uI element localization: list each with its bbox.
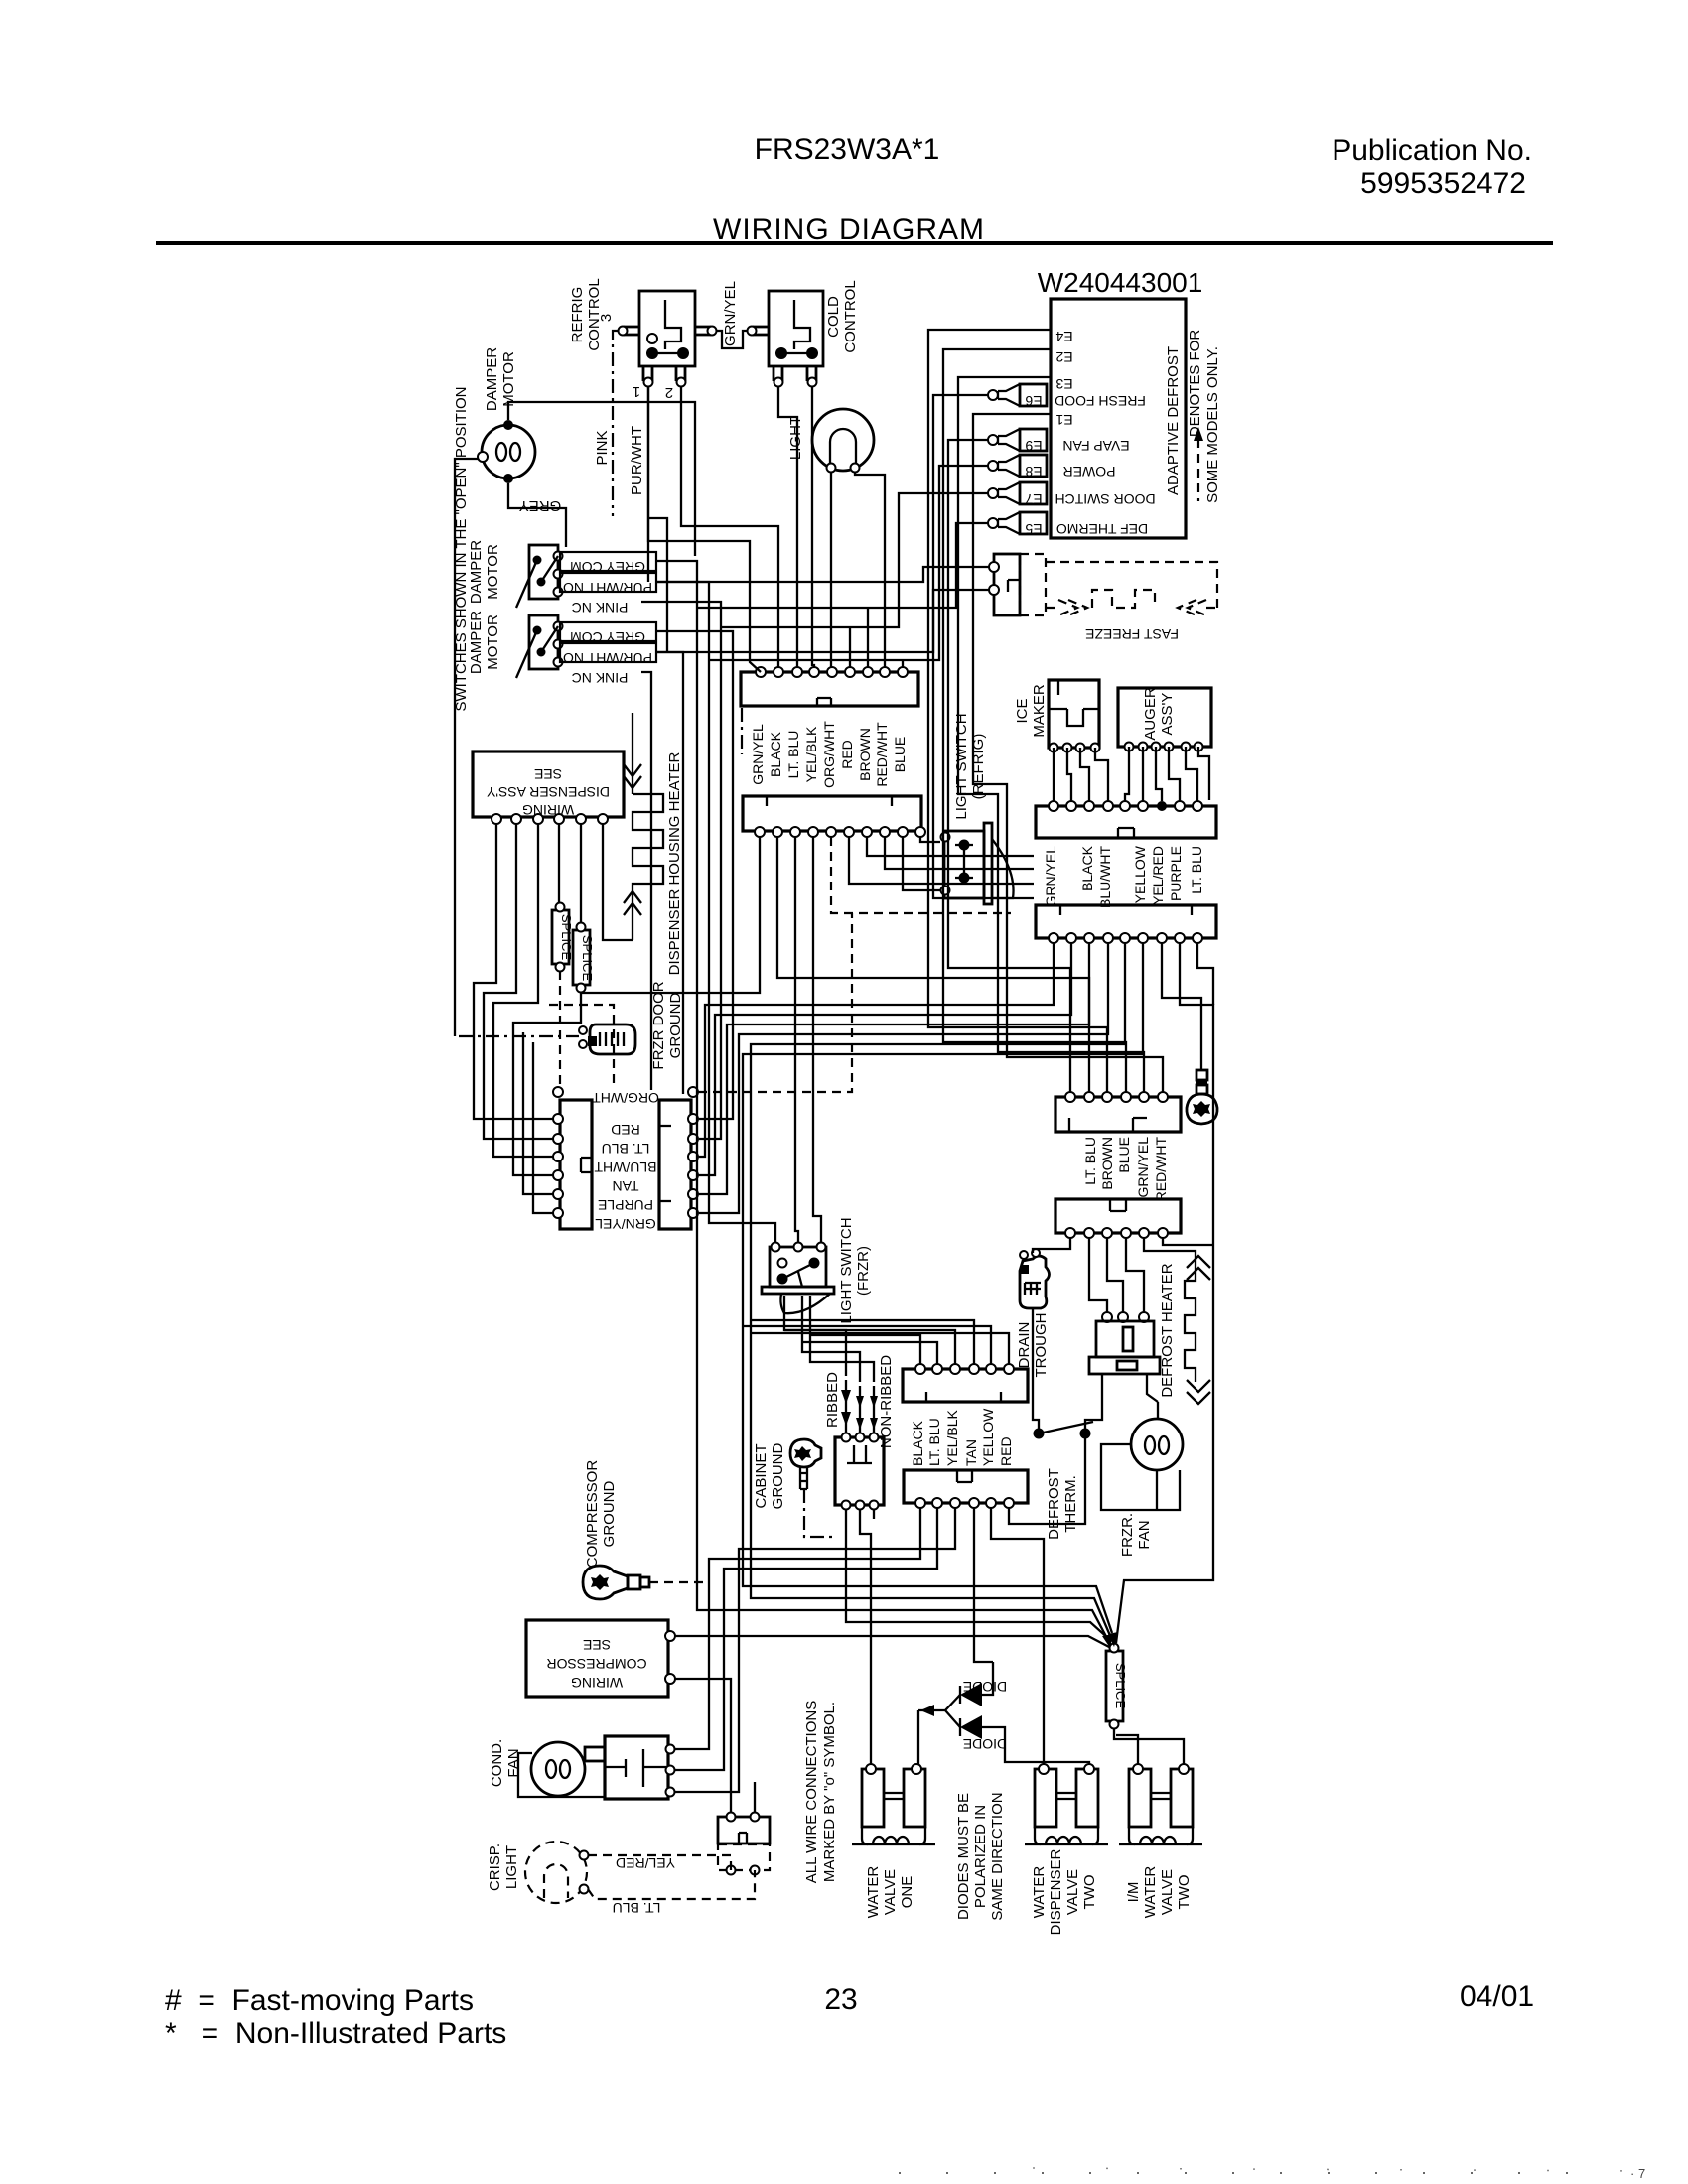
- wire drop to strip A t9: [902, 660, 904, 667]
- lug terminal E6: [988, 384, 1047, 409]
- dispenser housing heater R1: [624, 751, 663, 940]
- wire dispenser t3 to J1: [493, 824, 553, 1157]
- svg-text:PINK NC: PINK NC: [572, 670, 629, 686]
- splice SP1: [552, 903, 574, 972]
- wire strip G t4 to diodes: [974, 1508, 993, 1662]
- svg-text:YEL/BLK: YEL/BLK: [944, 1410, 960, 1466]
- svg-text:GRN/YEL: GRN/YEL: [750, 724, 766, 785]
- wire strip B t4 to frzr light switch: [813, 837, 821, 1242]
- refrig light L1: [812, 409, 874, 473]
- svg-text:CABINET: CABINET: [753, 1443, 770, 1508]
- wire strip D t5 to bottom bundle: [751, 943, 1125, 1638]
- water valve one: [852, 1764, 935, 1844]
- svg-text:NON-RIBBED: NON-RIBBED: [878, 1355, 895, 1448]
- svg-text:BLACK: BLACK: [910, 1420, 925, 1466]
- svg-text:POLARIZED IN: POLARIZED IN: [972, 1805, 989, 1908]
- svg-text:PURPLE: PURPLE: [598, 1197, 653, 1213]
- adaptive defrost control board U1: [1051, 299, 1186, 538]
- fast freeze dashed harness: [1046, 562, 1217, 608]
- wire pin E2 long drop: [943, 349, 1126, 1092]
- svg-text:MOTOR: MOTOR: [485, 614, 501, 670]
- svg-text:WIRING: WIRING: [522, 802, 574, 818]
- wire strip B t7 right run: [867, 837, 1034, 856]
- svg-text:LIGHT: LIGHT: [503, 1845, 520, 1889]
- wire strip B t6 right run: [849, 837, 1034, 884]
- wire light left to strip A t5: [830, 473, 832, 667]
- svg-text:FAN: FAN: [1136, 1520, 1153, 1549]
- wire pin E3 long drop: [958, 377, 1144, 1092]
- svg-text:CONTROL: CONTROL: [842, 280, 859, 352]
- wire auger t2: [1142, 747, 1144, 801]
- splice arrowheads: [1102, 1634, 1113, 1648]
- scan speckle row: [899, 2172, 1589, 2174]
- svg-text:ORG/WHT: ORG/WHT: [821, 721, 837, 788]
- wire auger t5: [1186, 747, 1197, 801]
- dashed frzr door ground feed: [459, 1035, 579, 1037]
- wire lug E6 long drop: [933, 395, 1034, 898]
- svg-text:GRN/YEL: GRN/YEL: [1135, 1137, 1151, 1198]
- wire damper motor left long run: [455, 459, 478, 1036]
- wire lug E8 staircase: [709, 466, 988, 660]
- wire J2 org/wht dashed: [698, 913, 852, 1092]
- svg-text:I/M: I/M: [1125, 1882, 1142, 1903]
- wire splice1 to J1 dashed: [559, 971, 561, 1087]
- svg-text:5995352472: 5995352472: [1360, 167, 1526, 200]
- wire run cap t1 to compressor box: [675, 1679, 731, 1812]
- im water valve two: [1119, 1764, 1202, 1844]
- svg-text:PINK: PINK: [594, 430, 611, 465]
- svg-text:DISPENSER HOUSING HEATER: DISPENSER HOUSING HEATER: [666, 751, 683, 975]
- svg-text:DIODE: DIODE: [963, 1679, 1007, 1695]
- svg-text:WATER: WATER: [1031, 1866, 1048, 1919]
- dashed denotes arrow: [1197, 439, 1199, 501]
- svg-text:TAN: TAN: [613, 1178, 639, 1194]
- wire dispenser t1 to J1: [474, 824, 553, 1119]
- wire strip F t6 to right edge: [1163, 1238, 1213, 1245]
- svg-text:COND.: COND.: [489, 1739, 505, 1787]
- svg-text:FRZR.: FRZR.: [1119, 1513, 1136, 1557]
- lug terminal E9: [988, 429, 1047, 454]
- svg-text:3: 3: [598, 314, 615, 322]
- lug terminal E7: [988, 482, 1047, 507]
- svg-text:VALVE: VALVE: [1064, 1869, 1081, 1915]
- wire strip D t6 to bottom bundle: [743, 943, 1143, 1633]
- wire strip B t1 to splice2: [582, 837, 760, 993]
- svg-text:YELLOW: YELLOW: [980, 1408, 996, 1466]
- connector strip F: [1055, 1199, 1181, 1238]
- wire strip F t5 to heater: [1144, 1238, 1196, 1263]
- wire dispenser t4 to splice1: [558, 824, 560, 903]
- wire strip D t1 to J2: [699, 943, 1054, 1157]
- wire grn/yel jumper: [717, 331, 749, 348]
- wire strip F t4 to thermostat: [1126, 1238, 1144, 1312]
- wire strip D t2 to J2: [699, 943, 1071, 1175]
- svg-text:FAST FREEZE: FAST FREEZE: [1085, 626, 1179, 642]
- wire pur/wht branch: [648, 518, 667, 652]
- svg-text:WATER: WATER: [1142, 1866, 1159, 1919]
- diode feed wires: [918, 1695, 960, 1727]
- svg-text:ADAPTIVE DEFROST: ADAPTIVE DEFROST: [1165, 346, 1182, 495]
- svg-text:YEL/RED: YEL/RED: [616, 1855, 675, 1871]
- svg-text:DEFROST: DEFROST: [1046, 1468, 1062, 1540]
- svg-text:E2: E2: [1055, 349, 1072, 365]
- frzr door ground lug: [579, 1024, 635, 1054]
- wire strip G t3 to cond fan: [675, 1508, 955, 1792]
- svg-text:DENOTES FOR: DENOTES FOR: [1187, 330, 1203, 438]
- svg-text:LIGHT SWITCH: LIGHT SWITCH: [953, 713, 970, 819]
- svg-text:2: 2: [665, 384, 673, 401]
- svg-text:DEFROST HEATER: DEFROST HEATER: [1159, 1263, 1176, 1397]
- svg-text:RED/WHT: RED/WHT: [1153, 1137, 1169, 1202]
- label box PUR/WHT NO: [560, 573, 656, 592]
- wire heater top stub: [632, 713, 633, 751]
- wire strip B t8 right run: [885, 837, 1034, 869]
- wire compressor box t1 to splice: [675, 1636, 1109, 1647]
- light switch refrig S5: [941, 823, 1014, 904]
- svg-text:E6: E6: [1025, 393, 1042, 409]
- wire strip D t3 to J2: [699, 943, 1089, 1194]
- connector J1: [553, 1087, 592, 1229]
- svg-text:WATER: WATER: [865, 1866, 882, 1919]
- svg-text:AUGER: AUGER: [1142, 687, 1159, 741]
- wire ice maker t2: [1067, 748, 1071, 801]
- svg-text:DISPENSER ASS'Y: DISPENSER ASS'Y: [486, 784, 610, 800]
- water dispenser valve two: [1025, 1764, 1108, 1844]
- damper motor M1: [478, 420, 535, 483]
- wire refrig pin1 to strip A t1: [648, 387, 761, 672]
- svg-text:GRN/YEL: GRN/YEL: [1043, 846, 1058, 907]
- svg-text:LT. BLU: LT. BLU: [613, 1900, 661, 1916]
- wire pink nc row2: [641, 672, 651, 1090]
- svg-text:# = Fast-moving Parts: # = Fast-moving Parts: [165, 1984, 474, 2017]
- svg-text:FRZR DOOR: FRZR DOOR: [650, 981, 667, 1069]
- svg-text:SAME DIRECTION: SAME DIRECTION: [989, 1792, 1006, 1920]
- wire bulb stem: [1200, 1032, 1202, 1070]
- wire valve3 t1 to splice: [1116, 1735, 1138, 1764]
- svg-text:ORG/WHT: ORG/WHT: [592, 1090, 659, 1106]
- svg-text:BROWN: BROWN: [857, 728, 873, 781]
- auger assembly: [1118, 688, 1211, 751]
- svg-text:RIBBED: RIBBED: [824, 1372, 841, 1428]
- wire auger t6: [1198, 747, 1209, 800]
- wire pur/wht no row2: [656, 652, 683, 1094]
- svg-text:WIRING: WIRING: [571, 1675, 623, 1691]
- svg-text:DAMPER: DAMPER: [468, 611, 485, 674]
- svg-text:ASS'Y: ASS'Y: [1159, 693, 1176, 736]
- compressor ground lug: [583, 1566, 709, 1599]
- svg-text:LT. BLU: LT. BLU: [785, 731, 801, 779]
- wire strip F t3 to thermostat: [1107, 1238, 1123, 1312]
- wire strip G t2 to cond fan: [675, 1508, 937, 1770]
- svg-text:RED/WHT: RED/WHT: [874, 722, 890, 787]
- wire strip G t5 to valve2: [991, 1508, 1044, 1764]
- defrost thermostat body: [1089, 1312, 1160, 1402]
- connector J2: [659, 1087, 698, 1229]
- wire diode2 out to valve2: [1005, 1755, 1089, 1764]
- svg-text:GREY: GREY: [519, 497, 562, 514]
- svg-text:COLD: COLD: [825, 296, 842, 338]
- dashed box right of J1: [549, 1005, 614, 1087]
- svg-text:MOTOR: MOTOR: [485, 544, 501, 600]
- wire dispenser t6 to heater: [603, 824, 633, 940]
- svg-text:CRISP.: CRISP.: [487, 1843, 503, 1891]
- svg-text:GRN/YEL: GRN/YEL: [722, 281, 739, 346]
- ice maker: [1049, 680, 1100, 752]
- diode D1: [960, 1679, 1007, 1706]
- svg-text:SOME MODELS ONLY.: SOME MODELS ONLY.: [1204, 346, 1221, 503]
- svg-text:LIGHT: LIGHT: [787, 416, 804, 460]
- wire strip D t7 to bulb: [1162, 943, 1201, 1032]
- svg-text:RED: RED: [611, 1122, 640, 1138]
- wire run cap t2 to valve1: [754, 1782, 756, 1812]
- damper door switch S3: [516, 545, 563, 608]
- wire refrig pin2 to strip A t2: [681, 387, 778, 667]
- svg-text:1: 1: [633, 383, 640, 400]
- svg-text:E9: E9: [1025, 438, 1042, 454]
- dashed wire yel/red: [588, 1855, 731, 1870]
- connector strip A: [741, 667, 918, 706]
- wire splice out to valve3: [1114, 1729, 1184, 1764]
- svg-text:PUR/WHT NO: PUR/WHT NO: [563, 580, 652, 596]
- wire thermostat to frzr fan: [1157, 1402, 1159, 1419]
- wire ice maker t1: [1053, 748, 1055, 801]
- wire J1 lower terminals from left: [523, 1032, 553, 1213]
- svg-text:ICE: ICE: [1014, 698, 1031, 723]
- svg-text:MAKER: MAKER: [1031, 684, 1048, 738]
- dashed wire lt blu: [588, 1870, 755, 1899]
- label box GREY COM 2: [560, 622, 656, 641]
- wire strip F t1 to drain trough: [1033, 1238, 1070, 1253]
- svg-text:BLACK: BLACK: [1079, 845, 1095, 891]
- wire ribbed t6 down: [873, 1510, 875, 1519]
- wire light right to strip A t8: [855, 473, 885, 667]
- wire cold pin1 to strip A t3: [778, 387, 797, 667]
- svg-text:ONE: ONE: [899, 1876, 915, 1909]
- splice SP3: [1106, 1644, 1128, 1729]
- wire strip D t9 tap: [1197, 943, 1213, 1005]
- svg-text:E1: E1: [1055, 412, 1072, 428]
- wire cold pin2 to strip A t4: [812, 387, 814, 667]
- wire splice2 to J1: [513, 992, 581, 1175]
- wire lug E9 long drop: [948, 440, 1070, 1092]
- wire frzr light plate to ribbed arrows: [784, 1296, 846, 1376]
- svg-text:E5: E5: [1025, 521, 1042, 537]
- svg-text:· 7: · 7: [1630, 2166, 1645, 2181]
- indicator bulb: [1187, 1070, 1217, 1124]
- svg-text:GROUND: GROUND: [601, 1481, 618, 1548]
- svg-text:GRN/YEL: GRN/YEL: [595, 1216, 656, 1232]
- connector strip G upper: [903, 1364, 1028, 1402]
- svg-text:SPLICE: SPLICE: [580, 935, 595, 982]
- svg-text:BLU/WHT: BLU/WHT: [1097, 846, 1113, 908]
- connector strip B: [743, 796, 925, 837]
- wire damper motor top: [508, 402, 695, 556]
- wire pin E4 long drop: [928, 330, 1107, 1092]
- refrig control S1: [619, 291, 717, 387]
- svg-text:RED: RED: [839, 740, 855, 769]
- lug terminal E5: [988, 512, 1047, 537]
- svg-text:GROUND: GROUND: [667, 993, 684, 1059]
- svg-text:E8: E8: [1025, 464, 1042, 479]
- wire pur/wht pin1 drop: [647, 387, 649, 582]
- svg-text:BLACK: BLACK: [768, 731, 783, 777]
- svg-text:EVAP FAN: EVAP FAN: [1062, 438, 1129, 454]
- connector strip E: [1055, 1092, 1181, 1132]
- wire auger t1: [1125, 747, 1129, 801]
- svg-text:VALVE: VALVE: [882, 1869, 899, 1915]
- label box PUR/WHT NO 2: [560, 643, 656, 662]
- svg-text:MOTOR: MOTOR: [500, 351, 517, 407]
- svg-text:W240443001: W240443001: [1038, 267, 1203, 298]
- wire auger t3: [1156, 747, 1162, 801]
- wire thermostat to defrost therm switch: [1085, 1402, 1102, 1430]
- svg-text:DOOR SWITCH: DOOR SWITCH: [1055, 491, 1155, 507]
- wire fast freeze t2: [656, 590, 989, 652]
- ribbed harness arrows: [841, 1380, 878, 1437]
- svg-text:04/01: 04/01: [1460, 1980, 1534, 2013]
- svg-text:E3: E3: [1055, 376, 1072, 392]
- svg-text:GROUND: GROUND: [770, 1443, 786, 1510]
- wire drop to strip A t6: [849, 627, 851, 667]
- svg-text:BLU/WHT: BLU/WHT: [594, 1160, 656, 1175]
- label box GREY COM: [560, 552, 656, 571]
- svg-text:TWO: TWO: [1176, 1875, 1193, 1910]
- svg-text:LT. BLU: LT. BLU: [1189, 846, 1204, 894]
- svg-text:FRESH FOOD: FRESH FOOD: [1055, 393, 1146, 409]
- wire strip B t10 to light switch: [920, 837, 940, 842]
- ribbed connector block: [835, 1433, 884, 1510]
- svg-text:FAN: FAN: [505, 1748, 522, 1777]
- condenser fan motor M3: [518, 1736, 675, 1799]
- wire strip F t2 to thermostat: [1089, 1238, 1107, 1312]
- svg-text:SEE: SEE: [583, 1637, 611, 1653]
- svg-text:BLUE: BLUE: [1116, 1137, 1132, 1173]
- drain trough heater: [1020, 1249, 1050, 1308]
- wire pink dash-dot: [613, 331, 618, 516]
- svg-text:MARKED BY "o" SYMBOL.: MARKED BY "o" SYMBOL.: [821, 1702, 838, 1882]
- svg-text:LIGHT SWITCH: LIGHT SWITCH: [838, 1217, 855, 1323]
- defrost heater element: [1185, 1256, 1210, 1404]
- svg-text:Publication No.: Publication No.: [1332, 134, 1532, 167]
- fast freeze connector J9: [994, 554, 1020, 615]
- wire ice maker t4: [1095, 748, 1108, 801]
- wire fast freeze t1: [656, 567, 989, 582]
- wire ice maker t3: [1080, 748, 1089, 801]
- see compressor wiring box: [526, 1620, 675, 1697]
- svg-text:YEL/BLK: YEL/BLK: [803, 726, 819, 782]
- dispenser assy wiring box: [473, 751, 624, 824]
- svg-text:LT. BLU: LT. BLU: [1082, 1137, 1098, 1185]
- svg-text:RED: RED: [998, 1436, 1014, 1466]
- svg-text:* = Non-Illustrated Parts: * = Non-Illustrated Parts: [165, 2017, 506, 2050]
- svg-text:DISPENSER: DISPENSER: [1048, 1848, 1064, 1935]
- wire dispenser t5 to splice2: [580, 824, 582, 923]
- crisper light L2: [525, 1842, 589, 1903]
- wire grey com row1 to bottom bundle: [656, 561, 1110, 1644]
- svg-text:YEL/RED: YEL/RED: [1150, 846, 1166, 905]
- cabinet ground lug: [790, 1439, 835, 1537]
- svg-text:DIODE: DIODE: [963, 1736, 1007, 1752]
- diode D2: [960, 1715, 1007, 1752]
- title rule: [156, 241, 1553, 245]
- wire strip G top feeds: [810, 1335, 920, 1364]
- wire drop to strip A t7: [867, 608, 869, 667]
- wire lug E5 staircase: [697, 523, 988, 608]
- svg-text:SPLICE: SPLICE: [1113, 1663, 1128, 1709]
- svg-text:BLUE: BLUE: [892, 737, 908, 773]
- wire strip B t5 org/wht dashed: [831, 837, 1011, 913]
- svg-text:POWER: POWER: [1063, 464, 1116, 479]
- wire ribbed t5 to valve1: [860, 1510, 871, 1764]
- wire strip B t2 to strip E: [777, 837, 1089, 1092]
- damper door switch S4: [516, 615, 563, 678]
- svg-text:SEE: SEE: [534, 766, 562, 782]
- svg-text:PUR/WHT: PUR/WHT: [629, 426, 645, 495]
- freezer fan motor M2: [1101, 1419, 1183, 1510]
- run capacitor block: [718, 1813, 770, 1875]
- connector strip D: [1036, 905, 1216, 943]
- splice SP2: [573, 923, 595, 993]
- svg-text:DRAIN: DRAIN: [1016, 1322, 1033, 1369]
- svg-text:(FRZR): (FRZR): [855, 1246, 872, 1296]
- svg-text:23: 23: [824, 1983, 857, 2016]
- wire strip B t3 to frzr light switch: [795, 837, 798, 1242]
- wire grey com row2 to J2: [656, 631, 733, 1119]
- svg-text:DAMPER: DAMPER: [468, 540, 485, 604]
- svg-text:VALVE: VALVE: [1159, 1869, 1176, 1915]
- svg-text:DAMPER: DAMPER: [484, 347, 500, 411]
- wire pink nc row1 to J2: [641, 602, 721, 1139]
- wire strip G t1 to cond fan: [675, 1508, 920, 1749]
- svg-text:LT. BLU: LT. BLU: [926, 1418, 942, 1466]
- cold control S2: [748, 291, 824, 387]
- svg-text:TROUGH: TROUGH: [1033, 1313, 1050, 1378]
- wire strip D t4 to J2: [699, 943, 1108, 1213]
- wire lug E7 staircase: [721, 493, 988, 627]
- wire strip D t8 right edge drop: [1116, 943, 1213, 1643]
- connector strip C: [1036, 801, 1216, 838]
- connector strip G: [904, 1470, 1028, 1508]
- svg-text:COMPRESSOR: COMPRESSOR: [584, 1460, 601, 1569]
- svg-text:DEF THERMO: DEF THERMO: [1056, 521, 1148, 537]
- wire defrost therm to strip G: [1009, 1459, 1085, 1524]
- svg-text:BROWN: BROWN: [1099, 1137, 1115, 1190]
- svg-text:REFRIG: REFRIG: [569, 287, 586, 343]
- svg-text:TWO: TWO: [1081, 1875, 1098, 1910]
- dash-dot stub below strip A: [741, 708, 743, 754]
- wire pin E1 long drop: [973, 414, 1163, 1092]
- lug terminal E8: [988, 455, 1047, 479]
- svg-text:ALL WIRE CONNECTIONS: ALL WIRE CONNECTIONS: [803, 1701, 820, 1883]
- svg-text:PINK NC: PINK NC: [572, 600, 629, 615]
- wire strip B t9 to light switch: [903, 837, 940, 890]
- light switch frzr S6: [762, 1243, 834, 1314]
- svg-text:LT. BLU: LT. BLU: [602, 1141, 650, 1157]
- svg-text:FRS23W3A*1: FRS23W3A*1: [755, 133, 940, 166]
- svg-text:TAN: TAN: [963, 1439, 979, 1466]
- svg-text:E7: E7: [1025, 491, 1042, 507]
- defrost therm switch S7: [1033, 1308, 1093, 1459]
- svg-text:COMPRESSOR: COMPRESSOR: [546, 1656, 646, 1672]
- svg-text:PUR/WHT NO: PUR/WHT NO: [563, 650, 652, 666]
- svg-text:DIODES MUST BE: DIODES MUST BE: [955, 1793, 972, 1920]
- wire dispenser t2 to J1: [484, 824, 553, 1139]
- svg-text:E4: E4: [1055, 329, 1072, 344]
- wire valve1 t2 from diode fork: [917, 1710, 919, 1764]
- svg-text:YELLOW: YELLOW: [1132, 845, 1148, 903]
- wire pur/wht no row1 to frzr light switch: [656, 582, 775, 1242]
- wire auger t4: [1169, 747, 1180, 801]
